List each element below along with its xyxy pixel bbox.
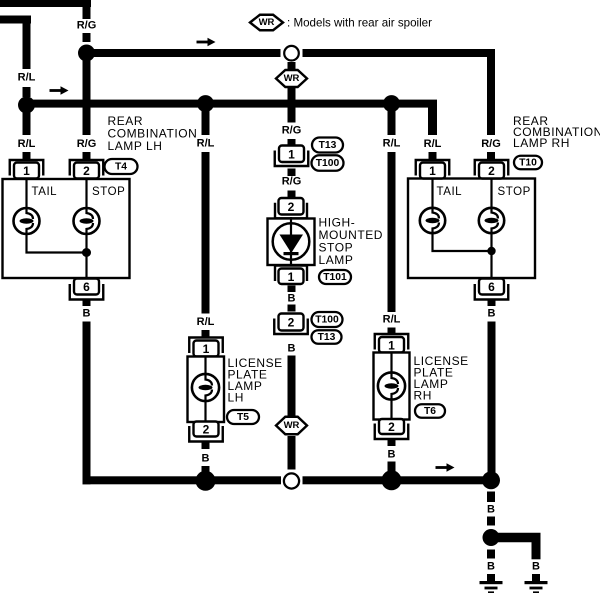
wire dash R/L RH <box>429 152 437 160</box>
connector label T10 <box>514 156 542 170</box>
wire stub below connector 6 LH <box>83 300 91 306</box>
svg-text:LAMP RH: LAMP RH <box>513 136 570 150</box>
svg-text:B: B <box>83 308 91 320</box>
svg-text:1: 1 <box>429 164 436 178</box>
wire tail bulb LH <box>27 179 87 253</box>
node junction license LH ground <box>196 471 216 491</box>
svg-text:R/G: R/G <box>481 138 501 150</box>
wire WR to ground bus <box>288 436 296 470</box>
wire R/G supply from top-left <box>0 0 91 7</box>
wire B LH down to ground bus <box>83 322 91 485</box>
svg-text:R/L: R/L <box>424 138 442 150</box>
svg-text:T6: T6 <box>424 406 436 417</box>
svg-text:B: B <box>288 293 296 305</box>
wire dash below in-line connector <box>288 169 296 177</box>
connector 2 license plate LH <box>189 426 223 442</box>
arrow current direction ground bus <box>436 463 455 471</box>
LED circle <box>273 223 310 260</box>
bulb license RH <box>378 372 405 399</box>
wire R/L drop to license RH lower <box>388 152 396 312</box>
wire through license RH <box>390 353 392 420</box>
license plate lamp LH body <box>188 357 225 423</box>
svg-text:LAMP LH: LAMP LH <box>108 139 163 153</box>
svg-text:2: 2 <box>83 164 90 178</box>
wire tail feed horizontal <box>27 100 438 108</box>
wire WR to high-mounted lamp <box>288 87 296 123</box>
wire R/G drop to LH stop <box>83 53 91 135</box>
svg-text:R/L: R/L <box>383 314 401 326</box>
bulb TAIL LH <box>14 208 40 234</box>
wire stop bulb LH <box>85 179 87 279</box>
connector label T13 upper <box>312 138 343 153</box>
wire ground bus right segment <box>303 476 496 484</box>
ground symbol right <box>525 574 548 593</box>
svg-text:1: 1 <box>288 147 295 161</box>
wire dash R/L LH <box>23 152 31 160</box>
wire stub below connector 6 RH <box>488 300 496 306</box>
wire dash license LH top <box>202 330 210 338</box>
svg-text:T10: T10 <box>519 157 537 168</box>
node junction license LH feed <box>197 95 214 112</box>
connector 1 rear combination LH <box>10 160 44 176</box>
svg-text:WR: WR <box>284 73 300 84</box>
LED diode cathode bar <box>284 252 299 255</box>
connector 2 high-mounted stop lamp <box>275 203 307 219</box>
svg-text:STOP: STOP <box>498 186 531 198</box>
node junction R/G supply <box>78 45 95 62</box>
svg-text:R/G: R/G <box>282 125 302 137</box>
connector 6 rear combination LH <box>70 284 104 300</box>
svg-text:T5: T5 <box>237 412 249 423</box>
wire dash to lamp connector 2 <box>288 191 296 199</box>
wire tail bulb RH <box>433 179 492 252</box>
svg-text:1: 1 <box>288 270 295 284</box>
wire stop feed horizontal left segment <box>87 49 281 57</box>
svg-text:T100: T100 <box>315 314 339 325</box>
connector 2 license plate RH <box>375 424 409 440</box>
high-mounted stop lamp body U1 <box>268 219 315 266</box>
bulb STOP RH <box>479 208 504 233</box>
svg-text:T101: T101 <box>323 272 347 283</box>
svg-text:WR: WR <box>259 17 275 28</box>
wire dash R/G RH <box>487 152 495 160</box>
svg-text:B: B <box>488 308 496 320</box>
connector 1 rear combination RH <box>416 160 450 176</box>
node open circle centre ground bus <box>284 473 299 488</box>
rear combination lamp LH body <box>3 179 130 278</box>
bulb STOP LH <box>74 208 100 234</box>
wire to right ground <box>491 533 541 543</box>
wire stub below license RH <box>388 439 396 447</box>
node junction ground split <box>483 529 500 546</box>
svg-text:R/L: R/L <box>18 138 36 150</box>
wire dash to in-line connector 2 <box>288 305 296 312</box>
rear combination lamp RH body <box>408 179 535 279</box>
svg-text:2: 2 <box>203 423 210 437</box>
svg-text:6: 6 <box>83 280 90 294</box>
svg-text:TAIL: TAIL <box>32 186 58 198</box>
wire B centre to WR <box>288 356 296 419</box>
connector label T100 lower <box>312 312 343 327</box>
wire R/L drop to license LH lower <box>202 152 210 314</box>
legend WR symbol <box>250 15 283 31</box>
svg-text:: Models with rear air spoiler: : Models with rear air spoiler <box>287 17 432 30</box>
license plate lamp RH body <box>374 353 410 420</box>
svg-text:2: 2 <box>288 200 295 214</box>
svg-text:2: 2 <box>388 420 395 434</box>
svg-text:6: 6 <box>488 280 495 294</box>
node junction license RH ground <box>382 470 402 490</box>
svg-text:WR: WR <box>284 420 300 431</box>
wire ground bus left segment <box>83 476 282 484</box>
svg-text:R/G: R/G <box>77 138 97 150</box>
wire through license LH <box>204 357 206 423</box>
svg-text:B: B <box>288 343 296 355</box>
wire stub below license LH <box>202 442 210 450</box>
wire R/L drop to license LH upper <box>202 104 210 135</box>
wire stop feed horizontal right segment <box>303 49 496 57</box>
svg-text:TAIL: TAIL <box>437 186 463 198</box>
svg-text:R/G: R/G <box>282 176 302 188</box>
connector 6 rear combination RH <box>475 284 509 300</box>
svg-text:1: 1 <box>388 338 395 352</box>
svg-text:STOP: STOP <box>92 186 125 198</box>
bulb license LH <box>192 374 219 401</box>
wire dash B license LH <box>202 466 210 476</box>
connector label T4 <box>105 159 138 174</box>
wire dash R/G <box>83 33 91 42</box>
svg-text:1: 1 <box>203 342 210 356</box>
svg-text:2: 2 <box>288 316 295 330</box>
wire dash R/L <box>23 87 31 97</box>
connector 2 rear combination LH <box>70 160 104 176</box>
connector 2 rear combination RH <box>475 160 509 176</box>
WR option symbol bottom <box>276 417 307 435</box>
wire R/L drop to LH tail <box>23 105 31 135</box>
svg-text:T13: T13 <box>319 140 337 151</box>
connector 1 high-mounted stop lamp <box>275 266 307 282</box>
wire dash ground drop 2 <box>487 517 495 526</box>
connector label T101 <box>319 270 351 284</box>
svg-text:B: B <box>487 504 495 516</box>
svg-text:2: 2 <box>488 164 495 178</box>
wire stop bulb RH <box>490 179 492 279</box>
connector 2 in-line T100/T13 <box>274 319 308 335</box>
node junction inside RH lamp <box>487 247 495 255</box>
LED diode triangle <box>280 235 304 254</box>
svg-text:R/L: R/L <box>383 138 401 150</box>
svg-text:B: B <box>202 453 210 465</box>
svg-text:1: 1 <box>23 164 30 178</box>
wire R/L drop to license RH upper <box>388 104 396 135</box>
svg-text:T4: T4 <box>115 161 127 172</box>
connector label T13 lower <box>312 330 342 344</box>
bulb TAIL RH <box>420 208 445 233</box>
ground symbol left <box>480 574 503 593</box>
connector label T6 <box>415 404 445 418</box>
node junction inside LH lamp <box>82 248 91 257</box>
connector 1 in-line T13/T100 <box>275 151 309 167</box>
svg-text:LH: LH <box>228 391 244 405</box>
svg-text:LAMP: LAMP <box>319 253 354 267</box>
wire dash to connector T13 <box>288 139 296 147</box>
wire R/L supply from left <box>0 16 31 24</box>
svg-text:B: B <box>532 561 540 573</box>
svg-text:T13: T13 <box>318 332 336 343</box>
wire dash ground drop 1 <box>487 492 495 503</box>
arrow current direction left <box>50 86 69 94</box>
wire dash license RH top <box>388 328 396 336</box>
connector label T100 upper <box>312 155 344 171</box>
svg-text:R/G: R/G <box>77 20 97 32</box>
arrow current direction top <box>197 38 216 46</box>
svg-text:T100: T100 <box>316 158 340 169</box>
node junction license RH feed <box>383 95 400 112</box>
wire stub circle to WR <box>288 62 296 71</box>
node junction ground bus right <box>482 471 500 489</box>
WR option symbol top <box>276 70 307 87</box>
svg-text:R/L: R/L <box>18 72 36 84</box>
wire stub below high-mounted lamp <box>288 286 296 293</box>
node junction R/L supply <box>18 97 35 114</box>
svg-text:R/L: R/L <box>197 138 215 150</box>
connector 1 license plate LH <box>189 338 223 354</box>
wire dash B license RH <box>388 462 396 472</box>
wire through lamp <box>290 217 292 267</box>
node open circle spoiler stop feed <box>284 46 299 61</box>
wire dash to left ground <box>487 550 495 559</box>
svg-text:RH: RH <box>414 389 432 403</box>
svg-text:R/L: R/L <box>197 316 215 328</box>
wire B RH down to ground bus <box>488 322 496 481</box>
svg-text:B: B <box>388 449 396 461</box>
connector label T5 <box>227 410 259 424</box>
connector 1 license plate RH <box>375 334 409 350</box>
svg-text:B: B <box>487 561 495 573</box>
wire dash R/G LH <box>83 152 91 160</box>
